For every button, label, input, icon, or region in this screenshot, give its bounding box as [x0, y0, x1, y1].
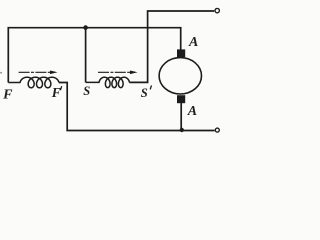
- terminal bottom right: [215, 128, 219, 132]
- node junction dot bottom: [180, 128, 184, 132]
- svg-text:A: A: [188, 35, 198, 50]
- svg-text:S: S: [141, 86, 148, 100]
- current arrow over S: [98, 71, 138, 75]
- svg-text:F: F: [2, 88, 13, 103]
- shunt field winding F-F': [8, 77, 59, 88]
- wire armature bottom to rail: [180, 103, 182, 131]
- current arrow over F: [19, 71, 58, 75]
- wire F' lead down to bottom rail: [59, 83, 215, 131]
- prime of S': [150, 85, 151, 89]
- edge artifact tick: [0, 72, 2, 75]
- wire left rail and top rail to armature: [8, 28, 180, 83]
- node junction dot top: [83, 25, 88, 30]
- wire S' up across top rail to top terminal: [129, 11, 214, 82]
- terminal top right: [215, 8, 219, 12]
- wire from dot down to S lead: [85, 28, 87, 83]
- svg-text:F: F: [51, 85, 61, 100]
- series field winding S-S': [86, 77, 130, 87]
- armature circle: [159, 58, 201, 94]
- brush top A: [177, 49, 185, 57]
- prime of F': [60, 86, 61, 90]
- svg-text:S: S: [83, 84, 90, 98]
- svg-text:A: A: [187, 104, 197, 119]
- brush bottom A: [177, 95, 185, 103]
